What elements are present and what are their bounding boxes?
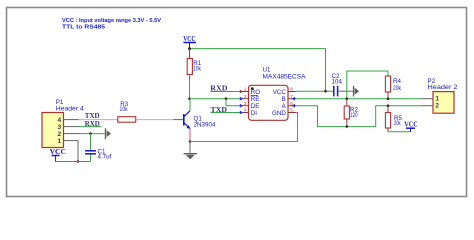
power symbol VCC (right, inverted): [404, 119, 418, 131]
svg-text:10k: 10k: [193, 65, 201, 72]
wire TXD to DI pin: [211, 112, 241, 114]
resistor R1: [187, 59, 202, 75]
ground (under Q1): [184, 153, 197, 159]
svg-text:104: 104: [332, 79, 343, 86]
svg-text:20k: 20k: [394, 120, 401, 127]
wire R5 bottom to VCC: [388, 131, 411, 133]
capacitor C2: [332, 73, 343, 96]
P2 pin stubs: [422, 99, 434, 106]
svg-text:MAX485ECSA: MAX485ECSA: [263, 74, 307, 81]
U1 pin numbers 1-4: [244, 87, 247, 114]
svg-text:Header 4: Header 4: [56, 106, 85, 113]
svg-text:RE: RE: [251, 96, 260, 103]
svg-text:VCC: VCC: [183, 34, 195, 43]
svg-text:2: 2: [244, 94, 247, 100]
net GND wire from U1 pin5 (crimson): [190, 113, 298, 142]
junction R5/A: [387, 104, 390, 107]
U1 pin numbers 5-8: [290, 87, 293, 114]
svg-text:VCC: VCC: [273, 89, 287, 96]
svg-text:Header 2: Header 2: [428, 84, 459, 91]
wire bottom run to VCC: [55, 161, 90, 163]
wire VCC rail drop: [325, 49, 327, 92]
junction VCC/R1: [188, 47, 191, 50]
junction node collector/RE: [188, 97, 191, 100]
wire RXD to RO pin: [211, 91, 241, 93]
wire to ground: [189, 142, 191, 154]
svg-text:2: 2: [435, 102, 439, 109]
wire TXD P1 to R3: [79, 119, 118, 121]
junction emitter/GND net: [189, 140, 192, 143]
junction C1 tap: [89, 132, 92, 135]
svg-text:VCC: VCC: [50, 147, 66, 156]
wire net B: U1 pin7 to P2 pin1: [296, 98, 422, 100]
junction pin1/VCC/C1: [77, 160, 80, 163]
svg-text:4: 4: [57, 117, 61, 124]
svg-text:B: B: [282, 96, 286, 103]
svg-text:R4: R4: [393, 78, 401, 85]
svg-text:TXD: TXD: [85, 112, 100, 120]
op-amp U1 MAX485ECSA body: [249, 67, 307, 121]
svg-text:4: 4: [244, 108, 247, 114]
resistor R4: [385, 76, 401, 99]
svg-text:120: 120: [350, 112, 358, 119]
border frame: [7, 8, 467, 197]
svg-text:8: 8: [290, 87, 293, 93]
wire RE-DE tie: [226, 99, 241, 106]
U1 pin stubs right: [288, 92, 296, 113]
resistor R2: [344, 99, 358, 127]
svg-text:2N3904: 2N3904: [194, 121, 217, 128]
resistor R5: [385, 106, 402, 132]
svg-text:VCC: VCC: [404, 119, 418, 128]
wire VCC rail (to C2/U1 area): [190, 48, 326, 50]
U1 pin names: [251, 89, 287, 117]
wire Q1 collector: [189, 99, 191, 111]
junction VCC drop: [324, 90, 327, 93]
svg-text:GND: GND: [272, 110, 286, 117]
svg-text:RO: RO: [251, 89, 260, 96]
connector P1 Header 4: [42, 99, 84, 148]
svg-text:2: 2: [57, 131, 61, 138]
svg-text:VCC : Input voltage range 3.3V: VCC : Input voltage range 3.3V - 5.5V: [62, 18, 161, 24]
svg-text:3: 3: [57, 124, 61, 131]
svg-text:1: 1: [435, 95, 439, 102]
connector P2 Header 2: [428, 78, 459, 113]
junction R4/B: [387, 97, 390, 100]
wire R2/R4 top loop: [347, 71, 388, 99]
svg-text:DI: DI: [251, 110, 257, 117]
wire Q1 emitter to gnd node: [189, 129, 191, 142]
svg-text:3: 3: [244, 101, 247, 107]
junction loop/B: [346, 97, 349, 100]
wire net A: U1 pin6 to P2 pin2: [296, 106, 422, 127]
wire C1 top stem: [90, 134, 92, 151]
svg-text:20k: 20k: [393, 85, 402, 92]
power symbol VCC (top): [183, 34, 196, 49]
wire RXD from P1 pin3: [79, 126, 102, 128]
junction RE/DE tie: [225, 97, 228, 100]
junction R2/A: [346, 125, 349, 128]
wire node to RE pin: [190, 98, 241, 100]
wire P1 pin1 elbow: [77, 141, 79, 162]
note text: [62, 18, 161, 31]
svg-text:TTL to RS485: TTL to RS485: [62, 25, 105, 31]
svg-text:10k: 10k: [120, 106, 129, 113]
svg-text:1: 1: [57, 138, 61, 145]
P1 pin stubs: [64, 120, 79, 141]
power symbol VCC (below P1, inverted): [50, 147, 66, 162]
wire C1 bottom stem: [90, 155, 92, 162]
wire P1 pin2 to ground: [79, 133, 105, 135]
resistor R3: [118, 101, 136, 122]
wire VCC to R1: [189, 49, 191, 59]
wire R3 to Q1 base: [136, 119, 174, 121]
U1 pin stubs left: [241, 92, 249, 113]
wire U1 pin8 VCC run: [296, 90, 333, 92]
svg-text:4.7uf: 4.7uf: [98, 153, 112, 160]
wire Q1 base stub: [174, 119, 184, 121]
wire R1 bottom to collector node: [189, 75, 191, 99]
wire C2 to ground: [338, 90, 353, 92]
transistor Q1 2N3904: [184, 111, 216, 129]
svg-text:U1: U1: [263, 67, 271, 74]
svg-text:5: 5: [290, 108, 293, 114]
ground (right-pointing, C2): [353, 86, 359, 97]
U1 input arrows (blue): [240, 90, 295, 115]
capacitor C1: [85, 149, 112, 161]
svg-text:1: 1: [244, 87, 247, 93]
ground (right-pointing, P1): [105, 128, 111, 139]
